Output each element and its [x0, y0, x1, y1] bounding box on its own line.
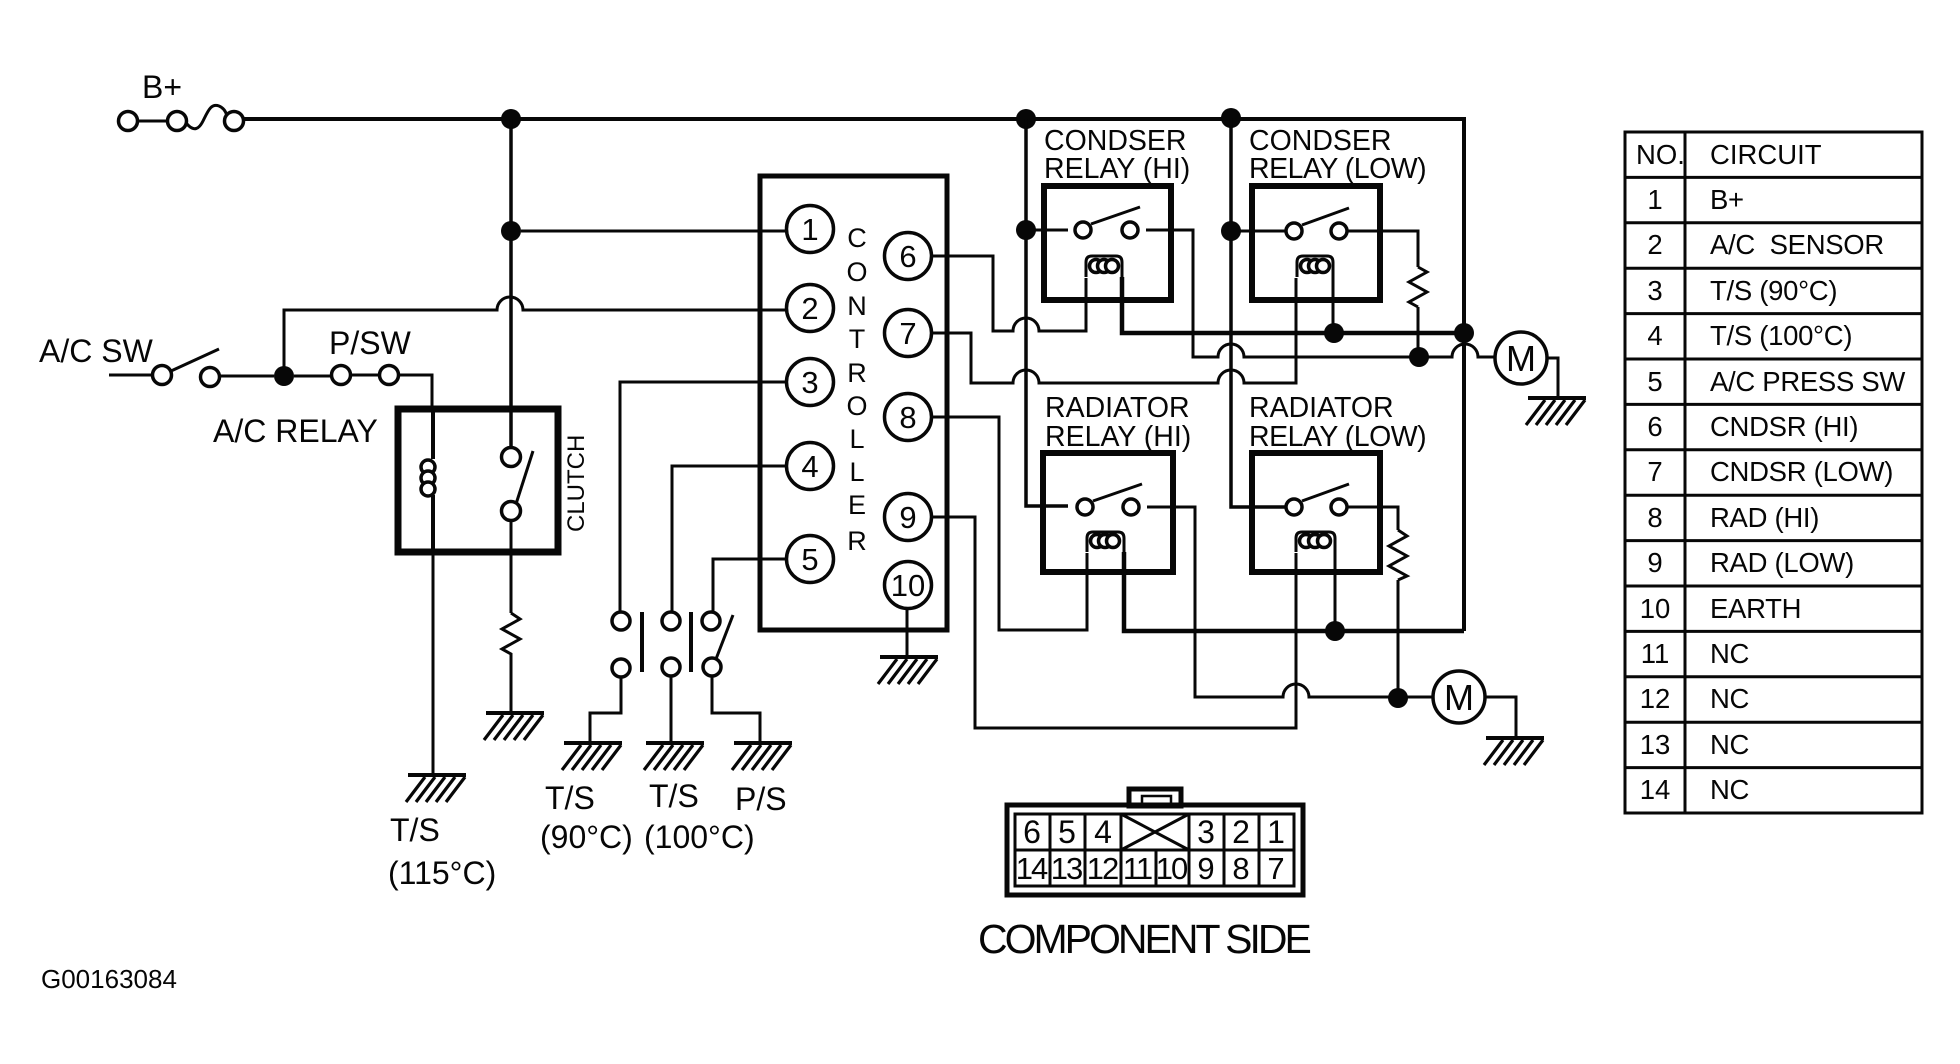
controller U1 box — [760, 176, 947, 630]
controller pin 4 — [787, 443, 834, 490]
wire B+ bus to radiator coils (thick) — [1124, 552, 1464, 631]
controller pin 5 — [787, 536, 834, 583]
wire B+ branch to condenser/radiator HI relays — [1026, 119, 1068, 506]
wire B+ bus top — [244, 119, 1464, 631]
svg-text:6: 6 — [899, 239, 916, 274]
svg-text:RELAY (HI): RELAY (HI) — [1045, 421, 1191, 453]
switch radiator HI contacts — [1077, 499, 1093, 515]
B+ terminal circle — [119, 112, 138, 131]
svg-text:2: 2 — [801, 291, 818, 326]
wire radiator motor to ground — [1484, 697, 1516, 737]
wire to A/C relay coil — [399, 375, 432, 409]
relay RADIATOR RELAY (LOW) box — [1252, 453, 1380, 572]
svg-text:6: 6 — [1023, 814, 1041, 850]
svg-text:10: 10 — [1156, 851, 1188, 886]
connector pin numbers top row — [1023, 814, 1285, 850]
svg-text:8: 8 — [1647, 502, 1662, 533]
junction dot — [501, 109, 521, 129]
wire resistor to motor line — [1397, 580, 1400, 698]
switch condenser LOW contacts — [1286, 223, 1302, 239]
wire P/S to ground — [712, 676, 760, 742]
table pin assignments — [1625, 132, 1922, 813]
svg-text:P/SW: P/SW — [329, 325, 412, 361]
svg-text:NC: NC — [1710, 729, 1749, 760]
svg-text:8: 8 — [1232, 851, 1249, 886]
svg-text:CLUTCH: CLUTCH — [563, 435, 590, 532]
svg-text:1: 1 — [1647, 184, 1662, 215]
svg-text:14: 14 — [1016, 851, 1048, 886]
svg-text:R: R — [847, 526, 867, 556]
svg-text:RAD (LOW): RAD (LOW) — [1710, 547, 1854, 578]
switch A/C relay contact top — [502, 448, 521, 467]
wire condenser motor to ground — [1546, 358, 1558, 397]
wire pin3 to T/S 90 — [620, 382, 786, 612]
junction dot — [1325, 621, 1345, 641]
svg-text:10: 10 — [891, 568, 925, 603]
ground — [562, 743, 622, 770]
controller pin 2 — [787, 285, 834, 332]
svg-text:RELAY (LOW): RELAY (LOW) — [1249, 421, 1426, 453]
motor radiator fan M — [1433, 671, 1485, 723]
svg-text:(115°C): (115°C) — [388, 855, 496, 891]
coil A/C relay — [431, 409, 435, 459]
svg-text:RAD (HI): RAD (HI) — [1710, 502, 1819, 533]
controller pin 10 — [885, 562, 932, 609]
switch radiator LOW contacts — [1286, 499, 1302, 515]
svg-text:12: 12 — [1640, 683, 1671, 714]
switch P/SW contact — [380, 366, 399, 385]
svg-text:O: O — [846, 257, 867, 287]
wire B+ branch to A/C relay switch — [509, 119, 513, 447]
connector outline — [1007, 805, 1303, 895]
controller pin 6 — [885, 233, 932, 280]
svg-text:RELAY (HI): RELAY (HI) — [1044, 153, 1190, 185]
svg-text:4: 4 — [801, 449, 818, 484]
switch A/C SW blade — [171, 349, 219, 371]
svg-text:A/C SENSOR: A/C SENSOR — [1710, 229, 1884, 260]
relay A/C RELAY box — [398, 409, 558, 552]
wire — [138, 120, 168, 123]
switch A/C relay contact bottom — [502, 502, 521, 521]
wire T/S 100C to ground — [670, 676, 673, 742]
junction dot radiator motor line — [1388, 688, 1408, 708]
relay CONDSER RELAY (HI) box — [1044, 186, 1171, 300]
ground — [484, 713, 544, 740]
svg-text:RADIATOR: RADIATOR — [1249, 392, 1394, 424]
controller pin 3 — [787, 359, 834, 406]
wire condenser HI switch output to motor line — [1146, 230, 1496, 357]
svg-text:7: 7 — [1267, 851, 1284, 886]
svg-text:EARTH: EARTH — [1710, 593, 1801, 624]
wire pin1 — [521, 230, 786, 233]
wire stub — [109, 374, 152, 377]
svg-text:R: R — [847, 358, 867, 388]
junction dot condenser motor line — [1409, 347, 1429, 367]
motor condenser fan M — [1495, 332, 1547, 384]
svg-text:2: 2 — [1647, 229, 1662, 260]
svg-text:9: 9 — [899, 500, 916, 535]
svg-text:P/S: P/S — [735, 781, 787, 817]
svg-text:A/C PRESS SW: A/C PRESS SW — [1710, 366, 1905, 397]
svg-text:9: 9 — [1647, 547, 1662, 578]
wire — [510, 659, 513, 712]
svg-text:5: 5 — [1058, 814, 1076, 850]
coil radiator HI — [1087, 532, 1124, 552]
svg-text:N: N — [847, 291, 867, 321]
svg-text:7: 7 — [899, 316, 916, 351]
switch radiator HI blade — [1093, 484, 1142, 501]
switch A/C SW contact — [153, 366, 172, 385]
wire pin7 to condenser LOW coil — [931, 278, 1296, 383]
switch P/SW contact — [332, 366, 351, 385]
ground — [406, 775, 466, 802]
svg-text:3: 3 — [1197, 814, 1215, 850]
wire resistor to motor line — [1417, 307, 1420, 357]
svg-text:4: 4 — [1647, 320, 1662, 351]
wire into condenser HI switch — [1026, 229, 1068, 232]
wire condenser LOW coil right leg — [1332, 277, 1335, 333]
wire B+ bus to condenser coils (thick) — [1122, 277, 1464, 333]
connector tab — [1129, 789, 1181, 806]
switch condenser HI contacts — [1075, 222, 1091, 238]
svg-text:9: 9 — [1197, 851, 1214, 886]
wire pin5 to P/S — [713, 559, 786, 612]
ground — [644, 743, 704, 770]
controller pin 8 — [885, 394, 932, 441]
controller pin 1 — [787, 206, 834, 253]
svg-text:CIRCUIT: CIRCUIT — [1710, 139, 1822, 170]
wire B+ branch to condenser/radiator LOW relays — [1231, 118, 1287, 507]
svg-text:8: 8 — [899, 400, 916, 435]
switch radiator LOW blade — [1302, 484, 1349, 501]
B+ connector circle — [225, 112, 244, 131]
resistor radiator fan — [1389, 530, 1407, 580]
junction dot pin1 tap — [501, 221, 521, 241]
svg-text:M: M — [1444, 677, 1474, 718]
wire into condenser LOW switch — [1231, 230, 1287, 233]
svg-text:12: 12 — [1087, 851, 1118, 886]
resistor condenser fan — [1409, 267, 1427, 307]
ground radiator motor — [1484, 738, 1544, 765]
ground — [732, 743, 792, 770]
svg-text:RELAY (LOW): RELAY (LOW) — [1249, 153, 1426, 185]
svg-text:CNDSR (HI): CNDSR (HI) — [1710, 411, 1858, 442]
svg-text:1: 1 — [1267, 814, 1285, 850]
svg-text:5: 5 — [801, 542, 818, 577]
fuse F1 — [187, 105, 227, 128]
svg-text:13: 13 — [1051, 851, 1082, 886]
svg-text:5: 5 — [1647, 366, 1662, 397]
junction dot — [1221, 221, 1241, 241]
svg-text:T/S: T/S — [390, 812, 440, 848]
junction dot — [1221, 108, 1241, 128]
controller pin 9 — [885, 494, 932, 541]
svg-text:T/S (90°C): T/S (90°C) — [1710, 275, 1837, 306]
svg-text:COMPONENT SIDE: COMPONENT SIDE — [978, 916, 1310, 962]
svg-text:G00163084: G00163084 — [41, 964, 177, 994]
wire to controller pin 2 — [284, 297, 787, 368]
svg-text:NO.: NO. — [1636, 139, 1685, 170]
svg-text:O: O — [846, 391, 867, 421]
B+ connector circle — [168, 112, 187, 131]
pressure switch P/S — [702, 612, 720, 630]
svg-text:C: C — [847, 223, 867, 253]
svg-text:10: 10 — [1640, 593, 1671, 624]
svg-text:NC: NC — [1710, 638, 1749, 669]
svg-text:3: 3 — [1647, 275, 1662, 306]
junction dot — [1324, 323, 1344, 343]
junction dot node A — [274, 366, 294, 386]
wire — [294, 375, 331, 378]
svg-text:7: 7 — [1647, 456, 1662, 487]
junction dot — [1016, 220, 1036, 240]
svg-text:A/C RELAY: A/C RELAY — [213, 413, 378, 449]
svg-text:T/S: T/S — [545, 780, 595, 816]
svg-text:14: 14 — [1640, 774, 1671, 805]
wire radiator LOW switch output to resistor — [1347, 507, 1398, 530]
svg-text:6: 6 — [1647, 411, 1662, 442]
wire radiator HI switch output to motor line — [1147, 507, 1434, 697]
switch A/C SW contact — [201, 368, 220, 387]
svg-text:(90°C): (90°C) — [540, 819, 633, 855]
wire pin9 to radiator LOW coil — [931, 517, 1296, 728]
svg-text:B+: B+ — [142, 69, 182, 105]
coil condenser HI — [1086, 256, 1122, 277]
controller pin 7 — [885, 310, 932, 357]
svg-text:T/S: T/S — [649, 778, 699, 814]
switch A/C relay blade — [516, 451, 533, 504]
svg-text:CNDSR (LOW): CNDSR (LOW) — [1710, 456, 1893, 487]
svg-text:11: 11 — [1123, 851, 1152, 886]
connector pin numbers bottom row — [1016, 851, 1285, 886]
wire A/C relay coil to ground — [432, 552, 435, 774]
svg-text:13: 13 — [1640, 729, 1671, 760]
wire — [220, 375, 274, 378]
wire radiator LOW coil right leg — [1334, 552, 1337, 631]
relay CONDSER RELAY (LOW) box — [1252, 186, 1380, 300]
svg-text:M: M — [1506, 338, 1536, 379]
svg-text:11: 11 — [1641, 638, 1670, 669]
svg-text:NC: NC — [1710, 683, 1749, 714]
wire T/S 90C to ground — [590, 677, 621, 742]
svg-text:1: 1 — [801, 212, 818, 247]
thermoswitch T/S 90C — [612, 612, 630, 630]
ground controller — [878, 657, 938, 684]
svg-text:3: 3 — [801, 365, 818, 400]
coil condenser LOW — [1297, 256, 1333, 277]
switch condenser LOW blade — [1302, 208, 1349, 225]
svg-text:T/S (100°C): T/S (100°C) — [1710, 320, 1852, 351]
svg-text:RADIATOR: RADIATOR — [1045, 392, 1190, 424]
svg-text:2: 2 — [1232, 814, 1250, 850]
svg-text:B+: B+ — [1710, 184, 1744, 215]
resistor R1 — [502, 613, 520, 659]
svg-text:L: L — [849, 424, 864, 454]
junction dot — [1454, 323, 1474, 343]
ground condenser motor — [1526, 398, 1586, 425]
wire pin10 to ground — [906, 609, 909, 657]
relay RADIATOR RELAY (HI) box — [1043, 453, 1173, 572]
wire A/C relay switch down — [510, 521, 513, 613]
wire condenser LOW switch output to resistor — [1347, 231, 1418, 267]
svg-text:T: T — [849, 324, 866, 354]
thermoswitch T/S 100C — [662, 612, 680, 630]
wire pin4 to T/S 100 — [672, 466, 786, 612]
junction dot — [1016, 109, 1036, 129]
svg-text:A/C SW: A/C SW — [39, 333, 154, 369]
svg-text:4: 4 — [1094, 814, 1112, 850]
wire pin6 to condenser HI coil — [931, 256, 1086, 331]
connector pin grid — [1015, 814, 1294, 886]
label CONTROLLER vertical — [846, 223, 867, 556]
svg-text:(100°C): (100°C) — [644, 819, 755, 855]
coil radiator LOW — [1296, 532, 1335, 552]
svg-text:E: E — [848, 490, 866, 520]
wire — [351, 374, 379, 377]
svg-text:NC: NC — [1710, 774, 1749, 805]
switch condenser HI blade — [1091, 207, 1140, 224]
wire pin8 to radiator HI coil — [931, 417, 1087, 630]
svg-text:L: L — [849, 457, 864, 487]
connector keyway X — [1121, 814, 1189, 850]
